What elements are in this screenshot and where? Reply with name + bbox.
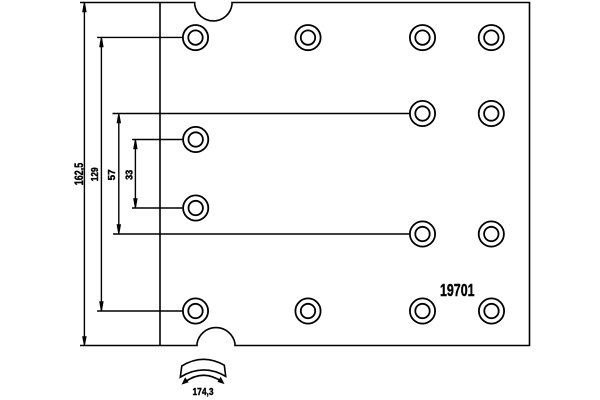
rivet hole R4C1 xyxy=(183,195,208,220)
rivet hole R2C4 xyxy=(479,101,504,126)
extension line row2 xyxy=(113,113,410,115)
rivet hole R3C1 xyxy=(183,127,208,152)
svg-text:19701: 19701 xyxy=(440,280,475,300)
rivet hole R1C3 xyxy=(410,25,435,50)
extension line row4 xyxy=(132,207,183,209)
plate outline with top and bottom notches xyxy=(80,3,530,346)
extension line row5 xyxy=(113,233,410,235)
rivet hole R5C4 xyxy=(479,221,504,246)
rivet hole R6C1 xyxy=(183,298,208,323)
arc dimension with arrows xyxy=(182,375,225,384)
dimension line 57 xyxy=(117,114,120,235)
svg-text:174,3: 174,3 xyxy=(193,387,214,398)
dimension line 33 xyxy=(134,140,137,209)
svg-text:129: 129 xyxy=(90,167,101,181)
rivet hole R1C2 xyxy=(295,25,320,50)
rivet hole R6C3 xyxy=(410,298,435,323)
dimension line 129 xyxy=(100,37,103,311)
extension line row1 xyxy=(97,36,183,38)
svg-text:162,5: 162,5 xyxy=(72,163,86,186)
lining cross-section band icon xyxy=(180,359,225,377)
svg-text:57: 57 xyxy=(107,169,118,180)
extension line row3 xyxy=(132,139,183,141)
dimension line 162,5 xyxy=(83,3,86,346)
rivet hole R1C1 xyxy=(183,25,208,50)
rivet hole R2C3 xyxy=(410,101,435,126)
rivet hole R6C2 xyxy=(295,298,320,323)
extension line row6 xyxy=(97,310,183,312)
rivet hole R5C3 xyxy=(410,221,435,246)
rivet hole R6C4 xyxy=(479,298,504,323)
rivet hole R1C4 xyxy=(479,25,504,50)
plate left edge line xyxy=(159,3,161,346)
svg-text:33: 33 xyxy=(124,170,135,180)
